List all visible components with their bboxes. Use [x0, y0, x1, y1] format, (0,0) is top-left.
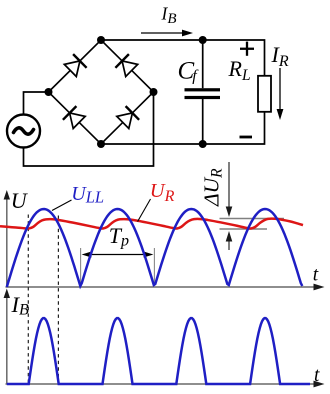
svg-text:IB: IB — [11, 292, 30, 319]
svg-text:ULL: ULL — [71, 183, 104, 206]
wire from source top to left bridge node — [24, 92, 49, 115]
AC source V1 — [7, 115, 40, 148]
svg-text:RL: RL — [228, 56, 251, 84]
wire capacitor leg bottom — [202, 99, 204, 144]
node bridge top — [97, 36, 105, 44]
resistor RL body — [258, 76, 271, 112]
svg-text:UR: UR — [150, 180, 175, 205]
middle plot y-axis U — [4, 190, 10, 288]
bridge arm wires (diamond) — [49, 40, 154, 144]
label plus — [240, 42, 254, 56]
wire bottom rail (- DC) — [101, 112, 265, 144]
bottom plot x-axis t — [6, 381, 325, 388]
svg-text:Cf: Cf — [178, 58, 200, 85]
gray level line URmax — [220, 218, 285, 220]
node bridge left — [45, 88, 53, 96]
diode D2 (upper-right arm) — [115, 54, 137, 76]
Tp trough marker line 1 — [80, 248, 82, 287]
wire top rail (+ DC) — [101, 40, 265, 76]
curve UR (red ripple) — [0, 219, 303, 229]
svg-text:Tp: Tp — [109, 223, 129, 250]
node bridge bottom — [97, 140, 105, 148]
bottom plot y-axis IB — [4, 289, 10, 385]
svg-text:ΔUR: ΔUR — [200, 168, 226, 207]
pointer line to UR — [138, 199, 151, 222]
Tp dimension arrows — [82, 252, 154, 258]
current arrow IB — [141, 30, 193, 37]
diode D1 (upper-left arm) — [64, 54, 86, 76]
label minus — [240, 136, 253, 139]
svg-text:U: U — [11, 188, 29, 213]
pointer line to ULL — [52, 200, 72, 211]
svg-text:t: t — [313, 265, 319, 286]
current arrow IR — [277, 68, 284, 120]
curve ULL (blue rectified sine) — [7, 209, 303, 287]
svg-text:t: t — [314, 365, 320, 386]
svg-text:IR: IR — [271, 42, 289, 70]
middle plot x-axis t — [6, 284, 325, 291]
dashed marker line at conduction start — [27, 215, 29, 384]
dUR up arrow — [226, 231, 233, 250]
gray level line URmin — [220, 228, 268, 230]
diode D4 (lower-right arm) — [117, 106, 139, 128]
wire from source bottom to right bridge node — [24, 92, 154, 166]
dashed marker line at conduction end — [57, 216, 59, 384]
node top (junction dot at Cf top) — [199, 36, 207, 44]
node bridge right — [150, 88, 158, 96]
wire capacitor leg top — [202, 40, 204, 88]
capacitor Cf plates — [185, 88, 221, 99]
Tp trough marker line 2 — [153, 248, 155, 287]
svg-text:IB: IB — [161, 4, 177, 27]
dUR down arrow — [226, 162, 233, 217]
curve IB pulses — [7, 318, 310, 384]
diode D3 (lower-left arm) — [63, 106, 85, 128]
node bottom (junction dot at Cf bottom) — [199, 140, 207, 148]
